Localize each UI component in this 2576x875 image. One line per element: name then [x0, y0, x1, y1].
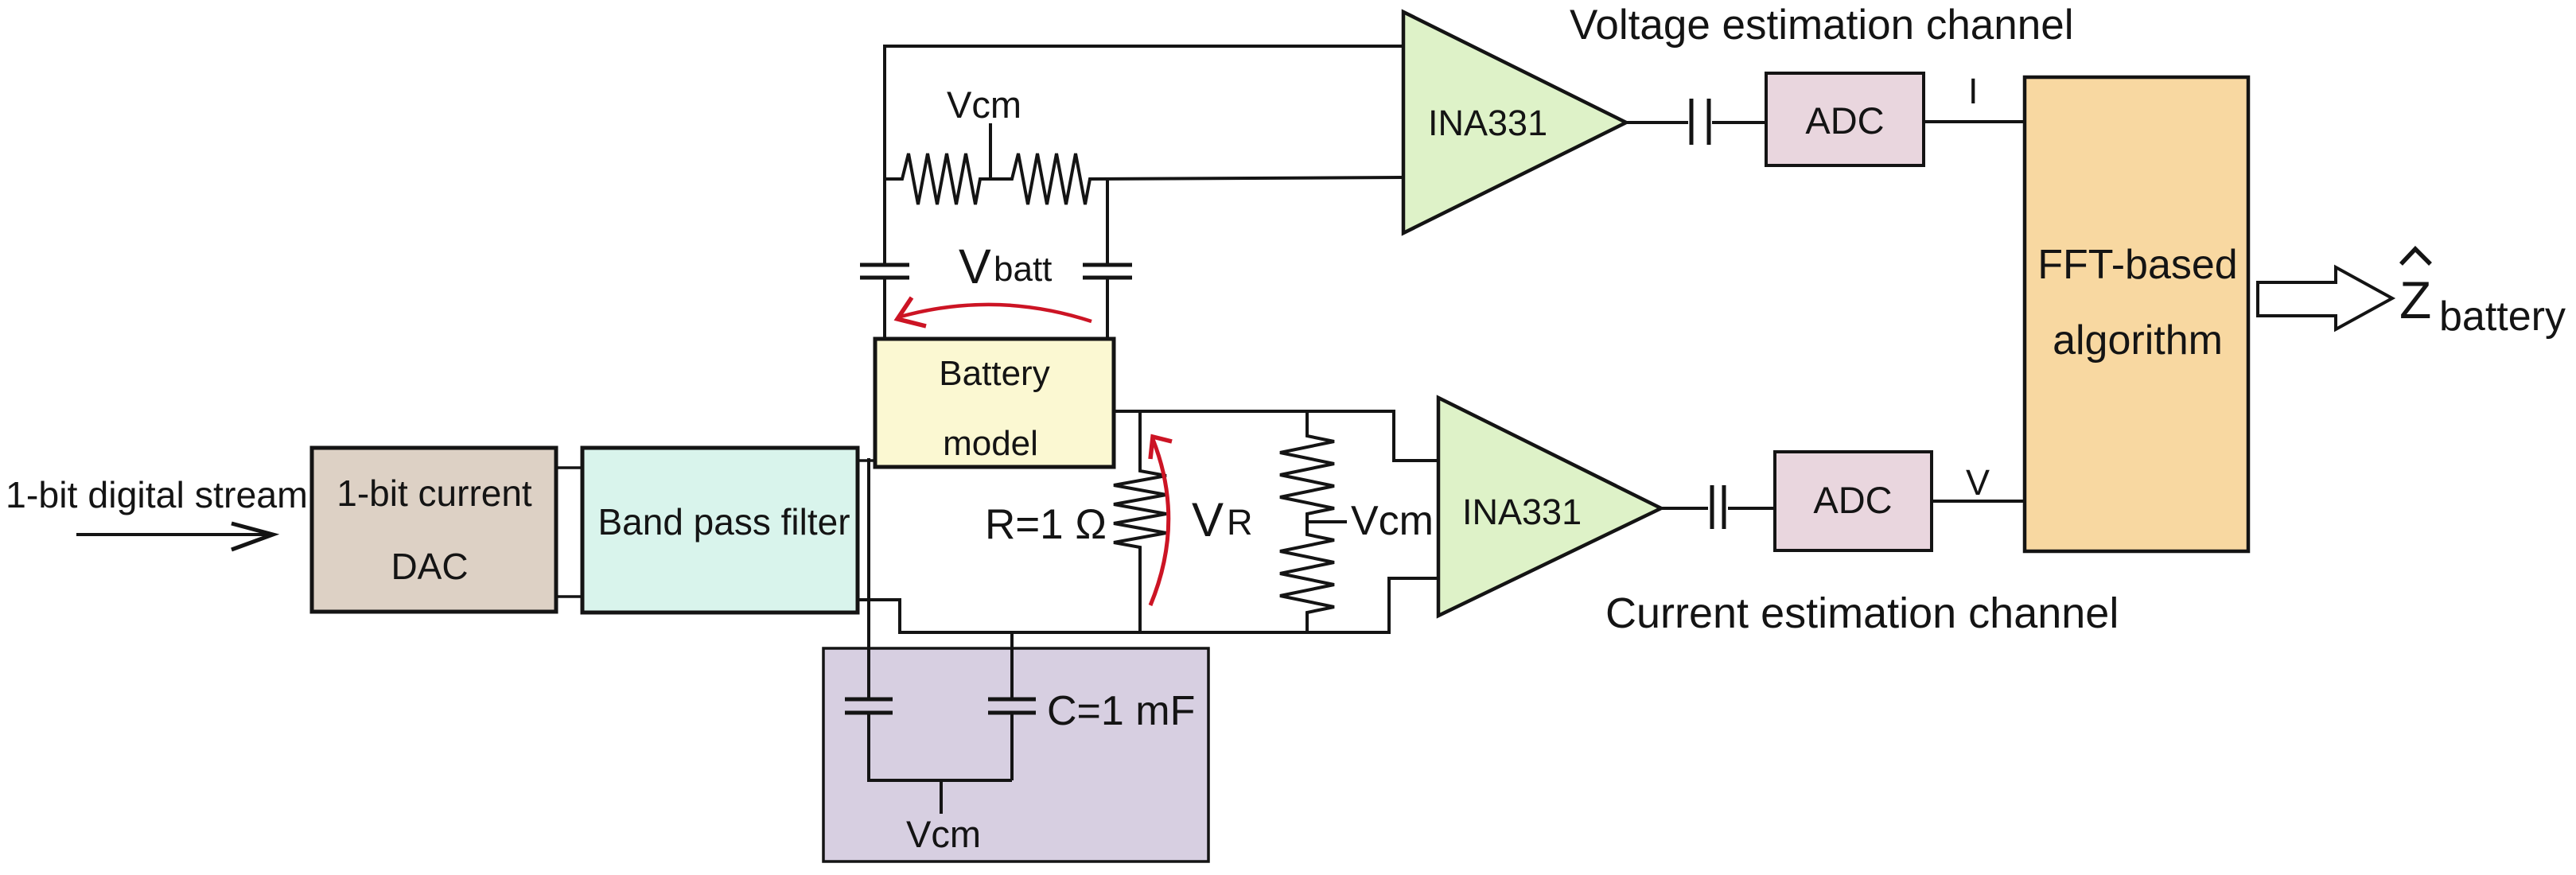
- svg-text:V: V: [959, 239, 991, 294]
- svg-text:Voltage estimation channel: Voltage estimation channel: [1570, 2, 2074, 49]
- svg-text:model: model: [943, 424, 1038, 463]
- svg-text:I: I: [1968, 71, 1979, 111]
- svg-text:ADC: ADC: [1805, 99, 1884, 142]
- svg-text:R: R: [1227, 502, 1253, 542]
- svg-text:R=1 Ω: R=1 Ω: [985, 501, 1107, 548]
- svg-text:algorithm: algorithm: [2053, 317, 2223, 364]
- svg-text:C=1 mF: C=1 mF: [1047, 688, 1195, 734]
- svg-text:Battery: Battery: [939, 354, 1049, 393]
- svg-text:FFT-based: FFT-based: [2037, 242, 2237, 288]
- svg-text:DAC: DAC: [391, 546, 468, 587]
- svg-text:Current estimation channel: Current estimation channel: [1605, 589, 2119, 637]
- svg-text:V: V: [1192, 493, 1224, 546]
- svg-text:1-bit current: 1-bit current: [337, 472, 532, 514]
- svg-text:Vcm: Vcm: [947, 84, 1021, 126]
- svg-text:ADC: ADC: [1813, 479, 1892, 521]
- svg-text:INA331: INA331: [1462, 492, 1582, 532]
- svg-text:battery: battery: [2439, 294, 2566, 340]
- svg-text:batt: batt: [994, 250, 1052, 289]
- svg-text:Vcm: Vcm: [1351, 498, 1434, 544]
- svg-text:INA331: INA331: [1428, 103, 1547, 143]
- svg-text:1-bit digital stream: 1-bit digital stream: [6, 474, 308, 515]
- svg-text:Z: Z: [2399, 270, 2431, 329]
- svg-text:Vcm: Vcm: [906, 813, 981, 855]
- svg-text:V: V: [1966, 462, 1990, 503]
- svg-text:Band pass filter: Band pass filter: [597, 501, 850, 542]
